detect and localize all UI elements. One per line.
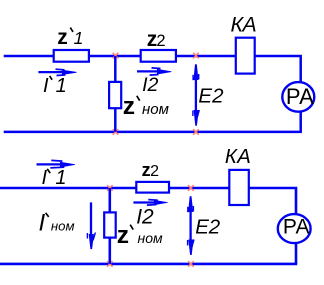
wire: PA to bottom rail (circuit 1) bbox=[299, 112, 302, 132]
wire: shunt branch lower (circuit 1) bbox=[114, 109, 117, 132]
svg-text:2: 2 bbox=[150, 163, 159, 180]
ammeter PA (circuit 2) bbox=[278, 214, 311, 243]
svg-text:2: 2 bbox=[156, 32, 165, 50]
label z`ном (circuit 1) bbox=[123, 93, 169, 120]
wire: top rail between Z2 and KA bbox=[177, 55, 236, 58]
node marker: E2 top junction (circuit 1) bbox=[193, 53, 199, 59]
node marker: Z'ном bottom junction (circuit 2) bbox=[107, 261, 113, 267]
svg-text:E2: E2 bbox=[195, 216, 220, 239]
svg-text:ном: ном bbox=[138, 230, 163, 246]
svg-text:1: 1 bbox=[56, 75, 67, 97]
svg-text:ном: ном bbox=[51, 218, 75, 233]
svg-text:z: z bbox=[123, 93, 135, 120]
label z2 (circuit 2) bbox=[142, 160, 160, 180]
resistor Z'ном (circuit 2) bbox=[104, 212, 116, 237]
current arrow I2 (circuit 2) bbox=[133, 200, 167, 206]
svg-text:I2: I2 bbox=[136, 205, 154, 228]
current arrow I`1 (circuit 2) bbox=[37, 160, 76, 168]
svg-text:z: z bbox=[117, 222, 129, 249]
svg-text:E2: E2 bbox=[198, 84, 224, 107]
resistor Z'ном (circuit 1) bbox=[109, 82, 121, 108]
wire: top rail from KA to top-right corner (circuit 2) bbox=[249, 188, 296, 215]
label I`ном (circuit 2) bbox=[39, 210, 75, 237]
label z`1 bbox=[57, 26, 83, 49]
wire: shunt branch upper (circuit 2) bbox=[109, 188, 112, 212]
node marker: E2 bottom junction (circuit 2) bbox=[188, 261, 194, 267]
current arrow I2 (circuit 1) bbox=[137, 68, 172, 75]
wire: shunt branch upper (circuit 1) bbox=[114, 56, 117, 82]
node marker: Z'ном top junction (circuit 2) bbox=[107, 185, 113, 191]
wire: bottom rail (circuit 2) bbox=[0, 263, 297, 266]
relay coil KA (circuit 2) bbox=[229, 170, 249, 205]
wire: PA to bottom rail (circuit 2) bbox=[295, 243, 298, 264]
svg-text:I: I bbox=[39, 210, 46, 237]
wire: top rail from KA to top-right corner bbox=[255, 56, 300, 83]
svg-text:КА: КА bbox=[231, 13, 257, 37]
svg-text:РА: РА bbox=[286, 84, 314, 109]
node marker: Z'ном bottom junction (circuit 1) bbox=[113, 129, 119, 135]
svg-text:I: I bbox=[42, 167, 48, 189]
svg-text:I: I bbox=[43, 75, 49, 97]
current arrow I`1 (circuit 1) bbox=[38, 69, 76, 75]
svg-text:РА: РА bbox=[283, 215, 310, 238]
node marker: Z'ном top junction (circuit 1) bbox=[113, 53, 119, 59]
EMF arrow E2 (circuit 1, double-headed) bbox=[193, 64, 199, 126]
node marker: E2 bottom junction (circuit 1) bbox=[193, 129, 199, 135]
wire: top rail between Z2 and KA (circuit 2) bbox=[169, 187, 229, 190]
relay coil KA (circuit 1) bbox=[236, 38, 255, 74]
resistor Z2 (circuit 1) bbox=[141, 50, 176, 62]
svg-text:1: 1 bbox=[74, 28, 84, 48]
svg-text:КА: КА bbox=[225, 146, 251, 168]
svg-text:ном: ном bbox=[142, 101, 169, 118]
ammeter PA (circuit 1) bbox=[282, 82, 314, 112]
wire: top rail left segment bbox=[4, 55, 53, 58]
EMF arrow E2 (circuit 2, double-headed) bbox=[188, 196, 194, 255]
label z2 (circuit 1) bbox=[147, 28, 166, 51]
current arrow I`ном (circuit 2, downward) bbox=[87, 202, 95, 249]
label z`ном (circuit 2) bbox=[117, 222, 163, 249]
resistor Z2 (circuit 2) bbox=[136, 182, 169, 193]
wire: top rail between Z'1 and Z2 bbox=[90, 55, 141, 58]
label I`1 (circuit 2) bbox=[42, 167, 67, 189]
svg-text:1: 1 bbox=[55, 167, 66, 189]
svg-text:I2: I2 bbox=[142, 74, 158, 96]
wire: shunt branch lower (circuit 2) bbox=[109, 238, 112, 264]
label I`1 (circuit 1) bbox=[43, 75, 67, 97]
svg-text:z: z bbox=[57, 26, 68, 49]
node marker: E2 top junction (circuit 2) bbox=[188, 185, 194, 191]
resistor Z'1 bbox=[54, 50, 89, 62]
wire: top rail left segment (circuit 2) bbox=[0, 187, 137, 190]
wire: bottom rail (circuit 1) bbox=[4, 131, 302, 134]
